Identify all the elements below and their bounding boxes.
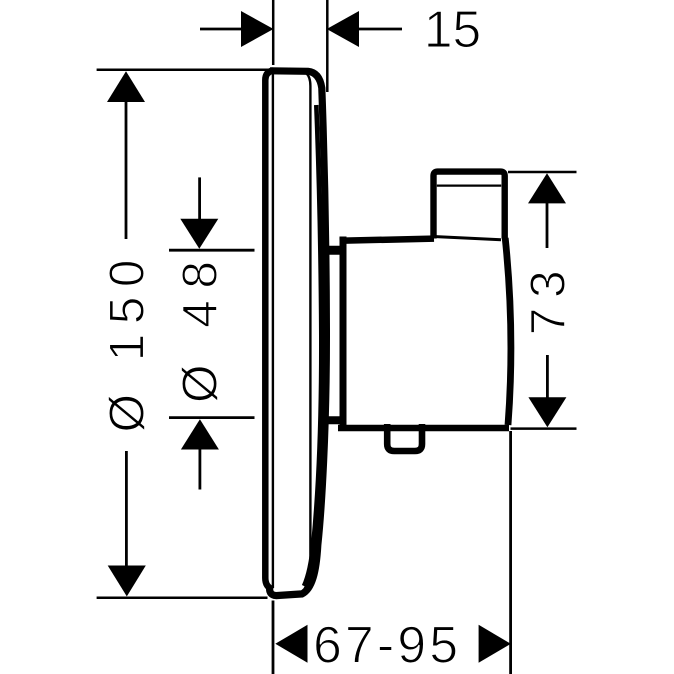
dim 15 right extension line (326, 0, 329, 92)
dim 67-95 right extension line (509, 431, 512, 674)
svg-text:15: 15 (424, 0, 481, 58)
escutcheon plate back rim (265, 71, 273, 590)
dim D48 top arrowhead (180, 219, 218, 249)
body right edge (505, 238, 511, 425)
dim 15 left arrowhead (241, 11, 274, 47)
dim 15 left tail (200, 28, 242, 31)
svg-text:Ø 48: Ø 48 (173, 250, 228, 403)
dim 73 bottom arrowhead (528, 397, 566, 427)
dim D48 top tail (198, 177, 201, 219)
bottom notch tab (387, 424, 422, 451)
svg-text:Ø 150: Ø 150 (99, 250, 154, 432)
dim D150 top extension line (97, 69, 270, 72)
dim 15 right arrowhead (327, 11, 359, 47)
dim 15 left extension line (272, 0, 275, 65)
dim 73 top arrowhead (528, 173, 566, 203)
dim D48 bottom arrowhead (181, 419, 219, 449)
dim 67-95 left arrowhead (275, 625, 307, 663)
handle seam (437, 184, 501, 186)
dim 67-95 left extension line (272, 601, 275, 674)
dim 73 top extension line (508, 171, 577, 174)
dim D150 bottom arrowhead (108, 566, 146, 597)
body bottom edge (338, 425, 509, 432)
svg-text:67-95: 67-95 (313, 615, 461, 673)
dim D150 top tail (125, 100, 128, 239)
dome face edge line (303, 73, 311, 592)
dim D150 bottom tail (125, 451, 128, 567)
body top edge (340, 239, 435, 241)
body top edge behind handle (436, 237, 501, 240)
dim D150 bottom extension line (97, 597, 268, 600)
sleeve top stub (320, 246, 341, 255)
body left edge (340, 237, 347, 429)
sleeve bottom stub (320, 416, 344, 424)
dim D48 bottom tail (198, 449, 201, 490)
dome inner right line (304, 105, 321, 586)
escutcheon plate dome outline (270, 71, 327, 596)
dim 67-95 right arrowhead (479, 625, 511, 663)
dim D48 top extension line (169, 249, 255, 252)
handle outline (434, 172, 505, 239)
dim D48 bottom extension line (169, 416, 255, 419)
dim 73 bottom extension line (511, 427, 577, 430)
dim 73 top tail (546, 203, 549, 248)
dim D150 top arrowhead (107, 71, 145, 102)
dim 15 right tail (359, 28, 403, 31)
svg-text:73: 73 (521, 261, 576, 336)
dim 73 bottom tail (546, 355, 549, 398)
plate seam line (272, 74, 274, 589)
